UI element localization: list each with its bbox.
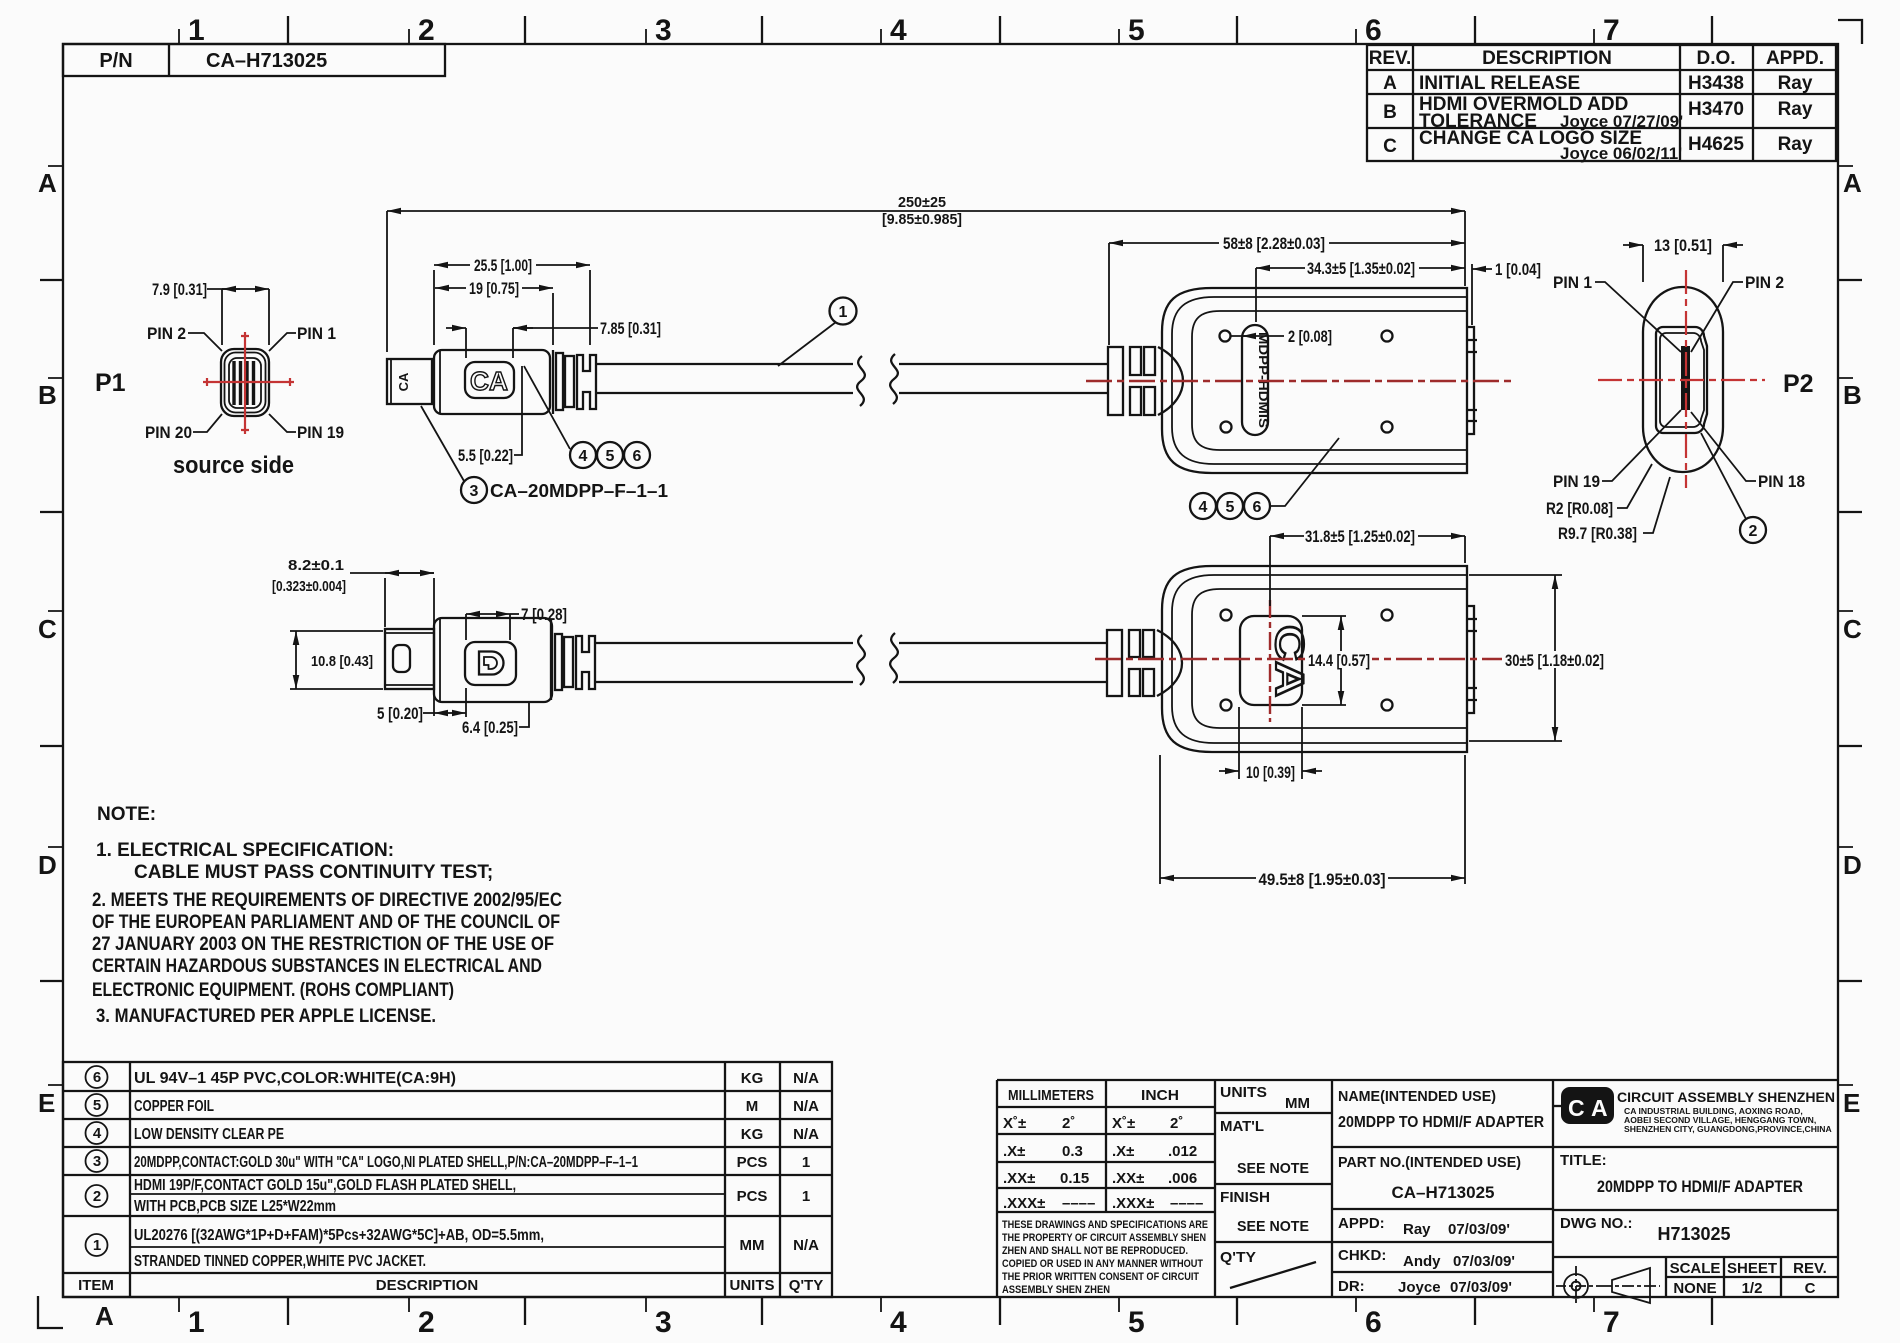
svg-text:PIN 1: PIN 1: [297, 324, 336, 343]
svg-text:13 [0.51]: 13 [0.51]: [1654, 237, 1712, 255]
svg-text:A: A: [1383, 73, 1397, 94]
svg-text:Ray: Ray: [1403, 1221, 1431, 1238]
svg-text:14.4 [0.57]: 14.4 [0.57]: [1308, 652, 1370, 670]
svg-text:SEE NOTE: SEE NOTE: [1237, 1160, 1309, 1177]
svg-text:250±25: 250±25: [898, 195, 946, 211]
svg-text:MILLIMETERS: MILLIMETERS: [1008, 1087, 1094, 1104]
svg-text:P1: P1: [95, 369, 126, 397]
svg-text:3: 3: [93, 1153, 101, 1170]
svg-text:P2: P2: [1783, 370, 1814, 398]
svg-text:C: C: [1843, 614, 1862, 644]
svg-text:.XXX±: .XXX±: [1112, 1195, 1154, 1212]
svg-text:ZHEN AND SHALL NOT BE REPRODUC: ZHEN AND SHALL NOT BE REPRODUCED.: [1002, 1245, 1188, 1257]
svg-text:0.3: 0.3: [1062, 1143, 1083, 1160]
svg-text:SHENZHEN CITY, GUANGDONG,PROVI: SHENZHEN CITY, GUANGDONG,PROVINCE,CHINA: [1624, 1124, 1832, 1134]
svg-text:4: 4: [890, 1306, 907, 1339]
svg-text:34.3±5 [1.35±0.02]: 34.3±5 [1.35±0.02]: [1307, 260, 1415, 278]
svg-text:PART NO.(INTENDED USE): PART NO.(INTENDED USE): [1338, 1154, 1521, 1171]
svg-text:A: A: [38, 168, 57, 198]
svg-text:3: 3: [470, 483, 479, 500]
svg-text:58±8 [2.28±0.03]: 58±8 [2.28±0.03]: [1223, 235, 1325, 253]
svg-text:07/03/09': 07/03/09': [1448, 1221, 1510, 1238]
svg-text:UL20276 [(32AWG*1P+D+FAM)*5Pcs: UL20276 [(32AWG*1P+D+FAM)*5Pcs+32AWG*5C]…: [134, 1227, 544, 1244]
svg-text:FINISH: FINISH: [1220, 1189, 1270, 1206]
svg-text:DESCRIPTION: DESCRIPTION: [376, 1277, 479, 1294]
svg-text:7.9 [0.31]: 7.9 [0.31]: [152, 281, 207, 299]
svg-text:APPD:: APPD:: [1338, 1215, 1385, 1232]
svg-text:19 [0.75]: 19 [0.75]: [469, 280, 519, 298]
svg-text:N/A: N/A: [793, 1098, 819, 1115]
svg-text:1 [0.04]: 1 [0.04]: [1495, 261, 1541, 279]
svg-text:TITLE:: TITLE:: [1560, 1152, 1607, 1169]
svg-text:CHKD:: CHKD:: [1338, 1247, 1386, 1264]
svg-text:THESE DRAWINGS AND SPECIFICATI: THESE DRAWINGS AND SPECIFICATIONS ARE: [1002, 1219, 1208, 1231]
svg-text:ITEM: ITEM: [78, 1277, 114, 1294]
svg-text:07/03/09': 07/03/09': [1453, 1253, 1515, 1270]
svg-text:6.4 [0.25]: 6.4 [0.25]: [462, 719, 518, 737]
svg-text:1: 1: [839, 304, 848, 321]
svg-text:5: 5: [1128, 14, 1145, 47]
svg-text:5: 5: [93, 1097, 101, 1114]
svg-text:A: A: [95, 1301, 114, 1331]
svg-text:6: 6: [1253, 499, 1262, 516]
svg-text:7 [0.28]: 7 [0.28]: [521, 606, 567, 624]
svg-text:DESCRIPTION: DESCRIPTION: [1482, 48, 1612, 69]
svg-text:Ray: Ray: [1778, 99, 1813, 120]
svg-text:C: C: [1383, 136, 1397, 157]
svg-text:MAT'L: MAT'L: [1220, 1118, 1264, 1135]
svg-text:D: D: [38, 850, 57, 880]
svg-text:.XXX±: .XXX±: [1003, 1195, 1045, 1212]
svg-text:X˚±: X˚±: [1003, 1115, 1026, 1132]
svg-text:1/2: 1/2: [1742, 1280, 1763, 1297]
svg-text:PIN 1: PIN 1: [1553, 273, 1592, 292]
svg-text:5: 5: [1226, 499, 1235, 516]
svg-text:1: 1: [188, 14, 205, 47]
svg-text:D.O.: D.O.: [1696, 48, 1735, 69]
svg-text:––––: ––––: [1170, 1195, 1203, 1212]
svg-text:N/A: N/A: [793, 1237, 819, 1254]
svg-text:30±5 [1.18±0.02]: 30±5 [1.18±0.02]: [1505, 652, 1604, 670]
svg-text:2. MEETS THE REQUIREMENTS OF D: 2. MEETS THE REQUIREMENTS OF DIRECTIVE 2…: [92, 890, 562, 911]
svg-text:NAME(INTENDED USE): NAME(INTENDED USE): [1338, 1088, 1496, 1105]
svg-text:20MDPP TO HDMI/F ADAPTER: 20MDPP TO HDMI/F ADAPTER: [1338, 1114, 1544, 1131]
svg-text:H713025: H713025: [1657, 1224, 1730, 1244]
svg-text:4: 4: [890, 14, 907, 47]
svg-text:DWG NO.:: DWG NO.:: [1560, 1215, 1633, 1232]
svg-text:2: 2: [1749, 523, 1758, 540]
svg-text:X˚±: X˚±: [1112, 1115, 1135, 1132]
svg-text:[9.85±0.985]: [9.85±0.985]: [882, 212, 962, 228]
svg-text:SEE NOTE: SEE NOTE: [1237, 1218, 1309, 1235]
svg-text:A: A: [1591, 1095, 1608, 1121]
svg-text:2: 2: [418, 1306, 435, 1339]
svg-text:COPPER FOIL: COPPER FOIL: [134, 1098, 214, 1115]
svg-text:KG: KG: [741, 1070, 764, 1087]
svg-text:3: 3: [655, 14, 672, 47]
svg-text:CA: CA: [396, 372, 411, 391]
svg-text:6: 6: [93, 1069, 101, 1086]
svg-text:ELECTRONIC EQUIPMENT. (ROHS CO: ELECTRONIC EQUIPMENT. (ROHS COMPLIANT): [92, 980, 454, 1001]
svg-text:B: B: [1843, 380, 1862, 410]
svg-text:A: A: [1843, 168, 1862, 198]
svg-text:LOW DENSITY CLEAR PE: LOW DENSITY CLEAR PE: [134, 1126, 284, 1143]
svg-text:.012: .012: [1168, 1143, 1197, 1160]
svg-text:CA: CA: [470, 366, 508, 396]
svg-text:2˚: 2˚: [1170, 1115, 1183, 1132]
svg-text:6: 6: [633, 448, 642, 465]
svg-text:HDMI 19P/F,CONTACT GOLD 15u",G: HDMI 19P/F,CONTACT GOLD 15u",GOLD FLASH …: [134, 1177, 516, 1194]
svg-text:ASSEMBLY SHEN ZHEN: ASSEMBLY SHEN ZHEN: [1002, 1284, 1110, 1296]
svg-text:COPIED OR USED IN ANY MANNER W: COPIED OR USED IN ANY MANNER WITHOUT: [1002, 1258, 1203, 1270]
svg-text:THE PROPERTY OF CIRCUIT ASSEMB: THE PROPERTY OF CIRCUIT ASSEMBLY SHEN: [1002, 1232, 1206, 1244]
svg-text:B: B: [1383, 102, 1397, 123]
svg-text:WITH PCB,PCB SIZE L25*W22mm: WITH PCB,PCB SIZE L25*W22mm: [134, 1198, 336, 1215]
svg-text:27 JANUARY 2003 ON THE RESTRIC: 27 JANUARY 2003 ON THE RESTRICTION OF TH…: [92, 934, 554, 955]
svg-text:Q'TY: Q'TY: [1220, 1249, 1256, 1266]
svg-text:[0.323±0.004]: [0.323±0.004]: [272, 579, 346, 595]
svg-text:E: E: [1843, 1088, 1860, 1118]
svg-text:M: M: [746, 1098, 759, 1115]
svg-text:P/N: P/N: [99, 50, 132, 72]
svg-text:10 [0.39]: 10 [0.39]: [1246, 764, 1295, 782]
svg-text:Ray: Ray: [1778, 73, 1813, 94]
svg-text:Joyce: Joyce: [1398, 1279, 1441, 1296]
svg-text:THE PRIOR WRITTEN CONSENT OF C: THE PRIOR WRITTEN CONSENT OF CIRCUIT: [1002, 1271, 1199, 1283]
svg-text:CABLE MUST PASS CONTINUITY TES: CABLE MUST PASS CONTINUITY TEST;: [134, 862, 493, 883]
svg-text:source side: source side: [173, 452, 294, 479]
svg-text:5: 5: [606, 448, 615, 465]
svg-text:UL 94V–1 45P PVC,COLOR:WHITE(C: UL 94V–1 45P PVC,COLOR:WHITE(CA:9H): [134, 1070, 456, 1087]
svg-text:5 [0.20]: 5 [0.20]: [377, 705, 423, 723]
svg-text:.XX±: .XX±: [1003, 1170, 1035, 1187]
svg-text:E: E: [38, 1088, 55, 1118]
svg-text:6: 6: [1365, 14, 1382, 47]
svg-text:20MDPP,CONTACT:GOLD 30u" WITH: 20MDPP,CONTACT:GOLD 30u" WITH "CA" LOGO,…: [134, 1154, 638, 1171]
svg-text:3: 3: [655, 1306, 672, 1339]
svg-text:DR:: DR:: [1338, 1278, 1365, 1295]
svg-text:REV.: REV.: [1793, 1260, 1827, 1277]
svg-text:H3438: H3438: [1688, 73, 1744, 94]
svg-text:5.5 [0.22]: 5.5 [0.22]: [458, 447, 513, 465]
svg-text:07/03/09': 07/03/09': [1450, 1279, 1512, 1296]
svg-text:2: 2: [93, 1188, 101, 1205]
svg-text:INCH: INCH: [1141, 1087, 1179, 1104]
svg-text:H3470: H3470: [1688, 99, 1744, 120]
svg-text:NONE: NONE: [1673, 1280, 1716, 1297]
svg-text:CIRCUIT ASSEMBLY SHENZHEN: CIRCUIT ASSEMBLY SHENZHEN: [1617, 1090, 1835, 1105]
svg-text:N/A: N/A: [793, 1070, 819, 1087]
svg-text:25.5 [1.00]: 25.5 [1.00]: [474, 257, 532, 275]
svg-text:N/A: N/A: [793, 1126, 819, 1143]
svg-text:2˚: 2˚: [1062, 1115, 1075, 1132]
svg-text:0.15: 0.15: [1060, 1170, 1089, 1187]
svg-text:PCS: PCS: [737, 1154, 768, 1171]
svg-text:CERTAIN HAZARDOUS SUBSTANCES I: CERTAIN HAZARDOUS SUBSTANCES IN ELECTRIC…: [92, 956, 542, 977]
svg-text:4: 4: [93, 1125, 102, 1142]
svg-text:PIN 18: PIN 18: [1758, 472, 1805, 491]
svg-text:REV.: REV.: [1369, 48, 1412, 69]
svg-text:PIN 19: PIN 19: [1553, 472, 1600, 491]
svg-text:SCALE: SCALE: [1670, 1260, 1721, 1277]
svg-text:C: C: [38, 614, 57, 644]
svg-text:APPD.: APPD.: [1766, 48, 1824, 69]
svg-text:4: 4: [579, 448, 588, 465]
svg-text:C: C: [1805, 1280, 1816, 1297]
svg-text:20MDPP TO HDMI/F ADAPTER: 20MDPP TO HDMI/F ADAPTER: [1597, 1177, 1803, 1196]
svg-text:2: 2: [418, 14, 435, 47]
svg-text:6: 6: [1365, 1306, 1382, 1339]
svg-text:1: 1: [188, 1306, 205, 1339]
svg-text:.XX±: .XX±: [1112, 1170, 1144, 1187]
svg-text:R2 [R0.08]: R2 [R0.08]: [1546, 499, 1613, 518]
svg-text:STRANDED TINNED COPPER,WHITE P: STRANDED TINNED COPPER,WHITE PVC JACKET.: [134, 1253, 426, 1270]
svg-text:KG: KG: [741, 1126, 764, 1143]
svg-text:UNITS: UNITS: [1220, 1084, 1267, 1101]
svg-text:H4625: H4625: [1688, 134, 1744, 155]
svg-text:Joyce 06/02/11': Joyce 06/02/11': [1560, 144, 1682, 163]
svg-text:MM: MM: [1285, 1095, 1310, 1112]
svg-text:CA–20MDPP–F–1–1: CA–20MDPP–F–1–1: [490, 481, 668, 501]
svg-text:1: 1: [93, 1237, 101, 1254]
svg-text:10.8 [0.43]: 10.8 [0.43]: [311, 654, 373, 670]
svg-text:PIN 19: PIN 19: [297, 423, 344, 442]
svg-text:CA–H713025: CA–H713025: [1391, 1183, 1494, 1202]
svg-text:MM: MM: [740, 1237, 765, 1254]
svg-text:NOTE:: NOTE:: [97, 804, 156, 825]
svg-text:Andy: Andy: [1403, 1253, 1441, 1270]
svg-text:OF THE EUROPEAN PARLIAMENT AND: OF THE EUROPEAN PARLIAMENT AND OF THE CO…: [92, 912, 560, 933]
svg-text:1: 1: [802, 1188, 810, 1205]
svg-text:7.85 [0.31]: 7.85 [0.31]: [600, 320, 661, 338]
svg-text:1. ELECTRICAL SPECIFICATION:: 1. ELECTRICAL SPECIFICATION:: [96, 840, 394, 861]
svg-text:INITIAL RELEASE: INITIAL RELEASE: [1419, 73, 1580, 94]
svg-text:UNITS: UNITS: [730, 1277, 775, 1294]
svg-text:PIN 20: PIN 20: [145, 423, 192, 442]
svg-text:R9.7 [R0.38]: R9.7 [R0.38]: [1558, 524, 1637, 543]
svg-text:.X±: .X±: [1112, 1143, 1134, 1160]
svg-text:SHEET: SHEET: [1727, 1260, 1777, 1277]
svg-text:B: B: [38, 380, 57, 410]
svg-text:3. MANUFACTURED PER APPLE LICE: 3. MANUFACTURED PER APPLE LICENSE.: [96, 1006, 436, 1027]
svg-text:2 [0.08]: 2 [0.08]: [1288, 328, 1332, 346]
svg-text:31.8±5 [1.25±0.02]: 31.8±5 [1.25±0.02]: [1305, 528, 1415, 546]
svg-text:PCS: PCS: [737, 1188, 768, 1205]
svg-text:49.5±8 [1.95±0.03]: 49.5±8 [1.95±0.03]: [1259, 871, 1386, 889]
svg-text:CA: CA: [1267, 625, 1311, 697]
svg-text:5: 5: [1128, 1306, 1145, 1339]
svg-text:.X±: .X±: [1003, 1143, 1025, 1160]
svg-text:––––: ––––: [1062, 1195, 1095, 1212]
svg-text:7: 7: [1603, 1306, 1620, 1339]
svg-text:C: C: [1568, 1095, 1585, 1121]
svg-text:Q'TY: Q'TY: [789, 1277, 823, 1294]
svg-text:4: 4: [1199, 499, 1208, 516]
svg-text:PIN 2: PIN 2: [147, 324, 186, 343]
svg-text:7: 7: [1603, 14, 1620, 47]
svg-text:1: 1: [802, 1154, 810, 1171]
svg-text:Ray: Ray: [1778, 134, 1813, 155]
svg-text:CA–H713025: CA–H713025: [206, 50, 327, 72]
svg-text:D: D: [1843, 850, 1862, 880]
svg-text:8.2±0.1: 8.2±0.1: [288, 558, 344, 574]
svg-text:PIN 2: PIN 2: [1745, 273, 1784, 292]
svg-text:.006: .006: [1168, 1170, 1197, 1187]
